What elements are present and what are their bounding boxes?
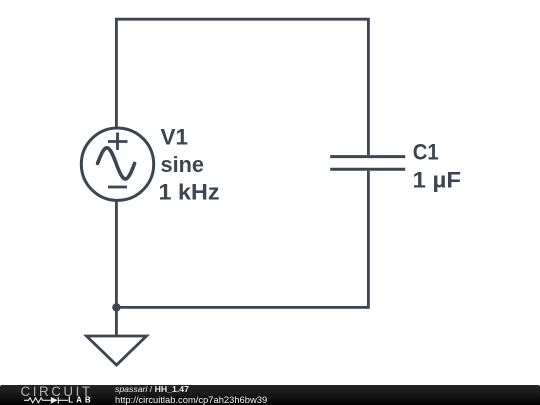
svg-text:V1: V1 <box>161 125 189 150</box>
wire: V1 bottom to junction to ground <box>115 200 118 336</box>
wire: from C1 bottom plate down and left along bottom to junction <box>116 171 368 308</box>
wire: top loop from V1 top, across top, down to C1 top plate <box>116 19 368 155</box>
footer credit line <box>115 385 189 394</box>
logo diode triangle <box>51 397 58 404</box>
V1 minus sign <box>108 186 127 189</box>
logo resistor-diode line <box>24 397 68 404</box>
footer url line <box>115 395 267 404</box>
capacitor C1 bottom plate <box>330 168 405 171</box>
footer bar <box>0 385 540 405</box>
capacitor C1 top plate <box>330 155 405 158</box>
svg-text:C1: C1 <box>413 139 439 164</box>
ground symbol <box>87 336 147 365</box>
svg-text:1 kHz: 1 kHz <box>159 180 220 205</box>
V1 sine symbol <box>98 148 135 179</box>
svg-text:sine: sine <box>161 152 205 177</box>
voltage source V1 circle <box>81 128 153 200</box>
junction node dot <box>112 303 120 311</box>
svg-text:1 µF: 1 µF <box>413 167 462 192</box>
V1 plus sign <box>108 133 128 151</box>
svg-text:LAB: LAB <box>68 395 93 404</box>
